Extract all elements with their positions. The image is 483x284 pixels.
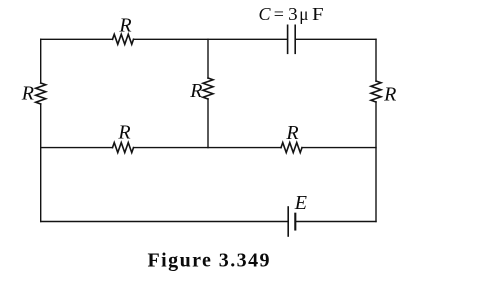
wire left side lower (40, 104, 42, 222)
wire right side lower (375, 102, 377, 222)
wire middle row left (41, 147, 113, 149)
wire bottom right (295, 221, 376, 223)
capacitor C1 right plate (294, 25, 296, 53)
svg-text:R: R (383, 83, 396, 105)
wire middle vertical lower (207, 99, 209, 148)
resistor R6 (middle row right) (281, 143, 302, 153)
resistor R1 (top wire) (113, 34, 134, 44)
wire top-left horizontal (41, 38, 113, 40)
wire bottom left (41, 221, 288, 223)
wire middle row center (134, 147, 282, 149)
svg-text:R: R (21, 82, 34, 104)
resistor R4 (right side) (371, 81, 381, 102)
wire top-right horizontal (295, 38, 376, 40)
wire left side upper (40, 39, 42, 83)
battery E long plate (287, 207, 289, 236)
resistor R2 (left side) (36, 83, 46, 104)
wire right side upper (375, 39, 377, 81)
svg-text:R: R (285, 122, 298, 144)
svg-text:R: R (117, 122, 130, 144)
svg-text:C=3μF: C=3μF (259, 4, 324, 24)
resistor R3 (middle vertical) (203, 78, 213, 99)
battery E short plate (294, 214, 296, 230)
svg-text:E: E (294, 192, 307, 214)
capacitor C1 left plate (287, 25, 289, 53)
resistor R5 (middle row left) (113, 143, 134, 153)
svg-text:R: R (118, 15, 131, 37)
wire middle vertical upper (207, 39, 209, 78)
svg-text:Figure 3.349: Figure 3.349 (148, 250, 271, 272)
wire top middle horizontal (134, 38, 288, 40)
wire middle row right (302, 147, 376, 149)
svg-text:R: R (189, 80, 202, 102)
